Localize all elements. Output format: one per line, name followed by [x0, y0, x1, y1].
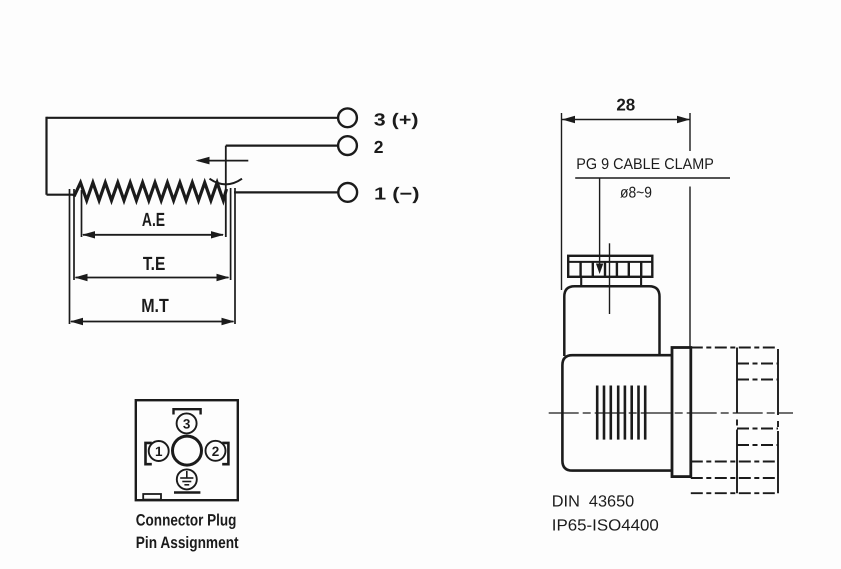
svg-text:Connector Plug: Connector Plug	[136, 512, 237, 530]
svg-text:28: 28	[616, 95, 635, 114]
svg-text:PG 9 CABLE CLAMP: PG 9 CABLE CLAMP	[576, 156, 714, 173]
svg-text:Pin Assignment: Pin Assignment	[136, 534, 239, 552]
svg-text:DIN 43650: DIN 43650	[552, 492, 634, 510]
svg-text:A.E: A.E	[142, 210, 165, 231]
svg-text:3 (+): 3 (+)	[374, 109, 419, 129]
svg-text:IP65-ISO4400: IP65-ISO4400	[552, 517, 659, 535]
svg-text:ø8~9: ø8~9	[620, 185, 652, 202]
svg-text:1: 1	[155, 444, 163, 459]
svg-text:1 (−): 1 (−)	[374, 184, 420, 204]
svg-text:2: 2	[212, 444, 220, 459]
svg-text:T.E: T.E	[143, 254, 165, 275]
svg-text:2: 2	[374, 137, 384, 157]
svg-text:3: 3	[183, 417, 191, 432]
svg-text:M.T: M.T	[141, 296, 169, 317]
